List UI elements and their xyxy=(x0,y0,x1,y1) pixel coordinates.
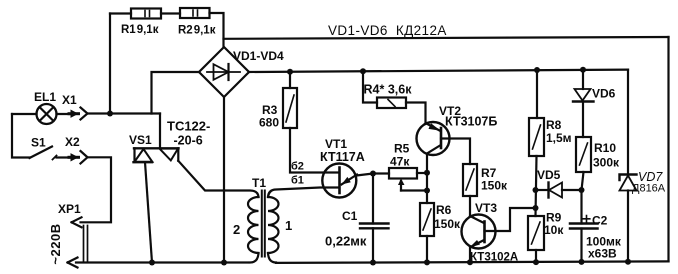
transformer T1 winding 2 xyxy=(248,197,259,253)
wire left edge down to S1 xyxy=(12,114,30,158)
triac VS1 xyxy=(134,148,179,162)
node VS1 bottom on rail xyxy=(149,260,155,266)
svg-text:0,22мк: 0,22мк xyxy=(325,234,367,249)
svg-text:10к: 10к xyxy=(544,223,564,237)
svg-text:300к: 300к xyxy=(593,156,620,170)
wire R2 to bridge top corner xyxy=(210,13,224,47)
transformer T1 winding 1 xyxy=(268,197,279,253)
wire S1 to X2 xyxy=(57,156,71,158)
wire R3 bottom to VT1 b2 xyxy=(290,128,339,173)
wire R9 bottom to rail xyxy=(535,250,537,263)
resistor R4 xyxy=(377,98,406,109)
node C1 on rail xyxy=(370,260,376,266)
wire VD5 anode lead xyxy=(562,189,582,191)
wire winding 2 bottom to rail xyxy=(250,253,259,263)
node VT3 base junction xyxy=(533,205,539,211)
svg-text:-20-6: -20-6 xyxy=(174,134,203,148)
resistor R10 xyxy=(576,137,591,172)
wire lamp left xyxy=(12,113,37,115)
node R4 top xyxy=(360,68,366,74)
resistor R3 xyxy=(283,88,297,128)
svg-text:680: 680 xyxy=(259,116,279,130)
node bridge bottom on rail xyxy=(221,260,227,266)
wire winding 1 top to VT1 b1 xyxy=(268,188,339,198)
wire lamp to X1 xyxy=(57,113,71,115)
label C2 plus xyxy=(583,216,590,223)
svg-text:VS1: VS1 xyxy=(129,133,152,147)
svg-text:R4* 3,6к: R4* 3,6к xyxy=(364,83,413,97)
diode VD6 xyxy=(573,70,594,137)
svg-text:С1: С1 xyxy=(342,209,358,223)
wire C1 bottom lead xyxy=(372,228,374,262)
wire node to R5 xyxy=(373,172,389,174)
resistor R9 xyxy=(528,216,544,250)
svg-text:VT1: VT1 xyxy=(325,137,347,151)
node R5 wiper xyxy=(424,188,430,194)
switch S1 blade xyxy=(30,147,53,159)
transistor VT3 (КТ3102А) xyxy=(462,215,496,249)
node R3 top xyxy=(287,69,293,75)
resistor R7 xyxy=(463,164,477,196)
svg-text:R29,1к: R29,1к xyxy=(178,25,216,37)
svg-text:С2: С2 xyxy=(592,214,608,228)
wire bridge bottom corner down to rail xyxy=(223,97,225,263)
svg-text:VD6: VD6 xyxy=(592,87,616,101)
wire X2 to plug XP1 xyxy=(81,157,112,222)
wire VS1 bottom to rail xyxy=(145,162,152,262)
resistor R1 xyxy=(131,9,161,19)
svg-text:ТС122-: ТС122- xyxy=(167,119,210,134)
node VD6 top xyxy=(580,67,586,73)
svg-text:VT3: VT3 xyxy=(475,201,497,215)
resistor R6 xyxy=(420,203,434,236)
wire VS1 gate to T1 winding 2 xyxy=(178,161,258,197)
svg-text:2: 2 xyxy=(233,222,240,237)
svg-text:R19,1к: R19,1к xyxy=(121,24,159,36)
wire VT3 base to R8/R9 line xyxy=(485,208,536,231)
svg-text:КТ3107Б: КТ3107Б xyxy=(445,115,497,129)
node VD5 cathode junction xyxy=(533,187,539,193)
wire R7 bottom to VT3 xyxy=(469,196,471,216)
svg-text:150к: 150к xyxy=(434,217,461,231)
svg-text:~220В: ~220В xyxy=(48,223,63,264)
wire VT2 base to R7 xyxy=(441,139,470,165)
bridge rectifier VD1-VD4 xyxy=(199,47,249,97)
node X1 junction xyxy=(107,111,113,117)
svg-text:R8: R8 xyxy=(546,118,562,132)
node VT1 emitter / R5 / C1 xyxy=(370,171,376,177)
top rail (minus) xyxy=(224,37,669,39)
svg-text:R5: R5 xyxy=(394,142,410,156)
node VT3 emitter on rail xyxy=(467,259,473,265)
svg-text:150к: 150к xyxy=(481,179,508,193)
wire winding 1 bottom to rail xyxy=(268,253,276,263)
plug XP1 pins xyxy=(84,226,88,262)
svg-text:Т1: Т1 xyxy=(252,176,266,190)
svg-text:б1: б1 xyxy=(291,175,304,187)
svg-text:R10: R10 xyxy=(594,141,616,155)
svg-text:S1: S1 xyxy=(31,136,46,150)
wire VT2 collector down (R5/R6 line) xyxy=(426,154,428,204)
svg-text:1,5м: 1,5м xyxy=(546,131,572,145)
node R6 on rail xyxy=(424,259,430,265)
lamp EL1 xyxy=(37,104,57,124)
svg-text:КТ3102А: КТ3102А xyxy=(470,252,518,264)
transformer T1 core xyxy=(262,191,265,257)
diode VD5 xyxy=(549,183,563,198)
node R5 right xyxy=(424,170,430,176)
svg-text:VD1-VD6КД212А: VD1-VD6КД212А xyxy=(328,23,447,38)
plug XP1 upper arrow xyxy=(72,217,82,227)
node VD5/R10/C2 xyxy=(579,187,585,193)
wire R5 wiper to VT2 emitter line xyxy=(401,189,427,191)
wire top feed to R1 xyxy=(110,12,131,14)
svg-text:ХР1: ХР1 xyxy=(58,202,81,216)
node C2 on rail xyxy=(579,259,585,265)
wire R8 bottom down through nodes to R9 xyxy=(536,156,537,216)
svg-text:R6: R6 xyxy=(436,203,452,217)
svg-text:1: 1 xyxy=(285,218,292,233)
wire R3 top lead xyxy=(289,72,291,88)
wire C1 top lead xyxy=(372,174,374,224)
wire R10 bottom to node xyxy=(582,172,584,190)
wire R5 right lead xyxy=(417,172,427,174)
zener diode VD7 xyxy=(620,175,637,262)
svg-text:х63В: х63В xyxy=(588,247,617,261)
wire VT3 emitter to rail xyxy=(469,247,471,263)
bottom rail right segment xyxy=(276,261,669,263)
svg-text:КТ117А: КТ117А xyxy=(320,150,365,164)
node VD7 on rail xyxy=(625,259,631,265)
svg-text:EL1: EL1 xyxy=(34,90,56,104)
wire R4 top lead xyxy=(363,71,377,102)
wire mains node horizontal (X1 line) xyxy=(88,112,161,114)
node R8 top xyxy=(534,67,540,73)
resistor R5 (variable) xyxy=(389,168,417,191)
svg-text:Д816А: Д816А xyxy=(632,183,666,195)
wire bridge left corner to mains node xyxy=(152,72,200,114)
transistor VT1 (КТ117А unijunction) xyxy=(322,164,357,198)
capacitor C1 xyxy=(360,224,389,229)
connector X1 (pin arrow + socket chevron) xyxy=(69,108,88,120)
connector X2 (pin arrow + socket chevron) xyxy=(69,151,88,164)
svg-text:б2: б2 xyxy=(291,161,304,173)
svg-text:X1: X1 xyxy=(62,93,77,107)
svg-text:47к: 47к xyxy=(390,155,410,169)
resistor R8 xyxy=(529,118,544,156)
wire R8 top lead xyxy=(536,70,538,118)
wire R4 to VT2 emitter xyxy=(406,103,426,124)
svg-text:VD5: VD5 xyxy=(537,168,561,182)
wire down to triac VS1 top xyxy=(159,114,161,149)
wire VT1 emitter to node xyxy=(357,174,374,176)
capacitor C2 xyxy=(570,190,598,263)
wire R6 bottom to rail xyxy=(426,236,428,263)
wire right edge vertical xyxy=(667,37,669,261)
svg-text:X2: X2 xyxy=(65,135,80,149)
second rail (plus) from bridge right xyxy=(249,70,628,72)
svg-text:VD1-VD4: VD1-VD4 xyxy=(233,49,284,63)
wire top-left vertical from R1 feed down to X1 node xyxy=(109,14,111,114)
switch S1 fixed contact tick xyxy=(53,156,57,160)
bottom rail left segment xyxy=(76,261,248,263)
wire VD5 cathode lead xyxy=(536,189,549,191)
wire R1-R2 xyxy=(161,12,180,14)
resistor R2 xyxy=(180,8,210,18)
transistor VT2 (КТ3107Б) xyxy=(417,122,450,155)
node R9 on rail xyxy=(533,259,539,265)
plug XP1 lower arrow xyxy=(68,258,78,268)
wire rail end down to VD7 xyxy=(627,70,629,175)
